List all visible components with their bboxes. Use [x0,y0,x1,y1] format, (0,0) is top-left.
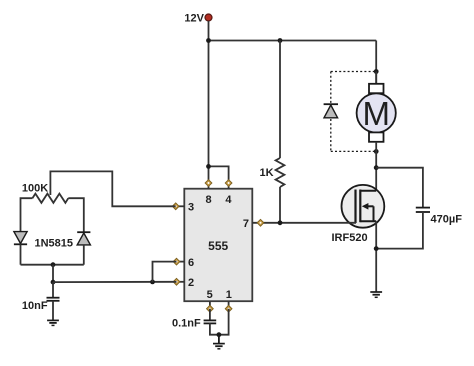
junction pin6 branch [150,280,155,285]
wire pot left lead [21,198,33,231]
pin 3 terminal [172,203,179,210]
ground mosfet [370,292,382,297]
junction source/cap/ground [374,246,379,251]
wire motor to mosfet drain [375,151,377,191]
pin 2 terminal [173,278,180,285]
diode D1a left (points down) [14,232,27,265]
junction pin8 branch [206,164,211,169]
svg-text:IRF520: IRF520 [332,232,368,244]
wire cap branch top [376,168,423,208]
svg-text:555: 555 [208,239,228,253]
pin 4 terminal [225,180,232,187]
svg-text:4: 4 [225,194,232,206]
wire mosfet source down [375,221,377,292]
svg-text:1: 1 [226,289,232,301]
junction 10nF tee [51,280,56,285]
junction 1K bottom [278,220,283,225]
svg-text:10nF: 10nF [22,300,48,312]
junction at 12V rail [206,38,211,43]
diode D2 flyback dashed box [331,72,376,152]
svg-text:0.1nF: 0.1nF [172,317,201,329]
pin 8 terminal [205,180,212,187]
capacitor C1 10nF [47,282,60,320]
svg-text:5: 5 [207,289,213,301]
junction cap branch [374,165,379,170]
svg-text:6: 6 [188,257,194,269]
svg-text:M: M [362,95,390,132]
pin 1 terminal [225,305,232,312]
potentiometer 100K [32,171,175,206]
transistor Q1 IRF520 [342,185,385,228]
junction 0.1nF ground [217,332,222,337]
wire pin 8 stub [208,183,210,189]
capacitor 470uF [416,208,430,212]
ground 0.1nF [213,335,225,349]
wire diode bottoms [21,264,84,266]
pin 6 stub [177,261,185,263]
junction 1K top [278,38,283,43]
svg-text:8: 8 [205,194,211,206]
pin 3 stub [176,205,185,207]
wire pin 4 stub [228,183,230,189]
svg-text:100K: 100K [22,182,48,194]
svg-text:7: 7 [243,218,249,230]
pin 5 terminal [207,305,214,312]
node 12V supply dot [205,14,212,21]
junction diode mid [51,262,56,267]
junction diode top [374,69,379,74]
ground 10nF [47,320,59,325]
wire pin6 branch [153,262,177,282]
svg-text:3: 3 [188,202,194,214]
resistor 1K [276,41,285,223]
wire cap bottom [376,212,423,249]
svg-text:470µF: 470µF [431,214,463,226]
pin 7 terminal [257,219,264,226]
IC U1 555 body [184,189,252,302]
diode D1b right (points up) [77,232,90,265]
wire motor drop [375,41,377,85]
pin 5 stub [209,301,211,309]
pin 6 terminal [173,258,180,265]
junction diode bottom [374,149,379,154]
pin 2 stub [177,281,185,283]
wire top rail horizontal [209,40,377,42]
wire pin 7 to gate [252,222,356,224]
diode D2 flyback symbol [324,104,338,118]
capacitor C2 0.1nF wiring [204,309,229,335]
pin 1 stub [228,301,230,309]
wire pot right lead [68,198,84,232]
svg-text:2: 2 [188,277,194,289]
svg-text:1K: 1K [260,167,274,179]
wire pin8/pin4 branch [209,166,229,183]
svg-text:12V: 12V [184,13,204,25]
wire to pin 2 [53,281,177,283]
wire mid drop [52,265,54,282]
svg-text:1N5815: 1N5815 [35,238,74,250]
motor M1 [357,72,396,152]
wire 12V vertical down to pin 8 [208,21,210,183]
